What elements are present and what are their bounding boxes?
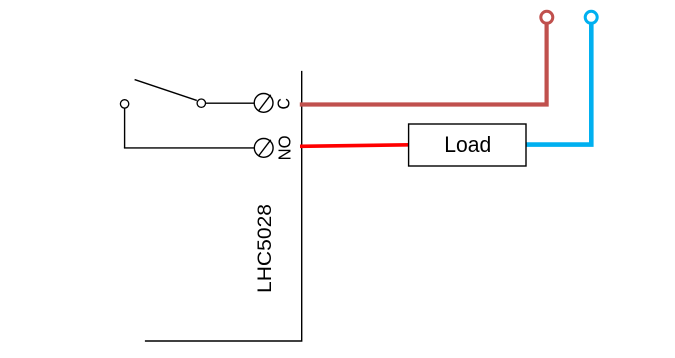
switch SW1 lever (135, 80, 197, 101)
wire: switch pole down (124, 108, 126, 148)
terminal N (blue ring) (585, 11, 597, 23)
switch SW1 pole contact (120, 100, 128, 108)
terminal NO screw (254, 139, 273, 158)
terminal C screw (254, 94, 273, 113)
switch SW1 throw contact (197, 99, 205, 107)
wire: NO to Load (red) (300, 145, 410, 147)
svg-text:Load: Load (444, 132, 491, 157)
wire: Load to neutral terminal (blue) (524, 24, 591, 145)
svg-text:NO: NO (274, 135, 294, 160)
wire: switch throw to terminal C (206, 102, 255, 104)
wire: to terminal NO (124, 147, 255, 149)
load box (409, 124, 526, 166)
svg-text:LHC5028: LHC5028 (254, 204, 276, 293)
svg-text:C: C (273, 98, 293, 110)
terminal L (brown ring) (541, 11, 553, 23)
wire: C to line terminal (brown) (300, 24, 547, 105)
LHC5028 module outline (145, 71, 302, 341)
